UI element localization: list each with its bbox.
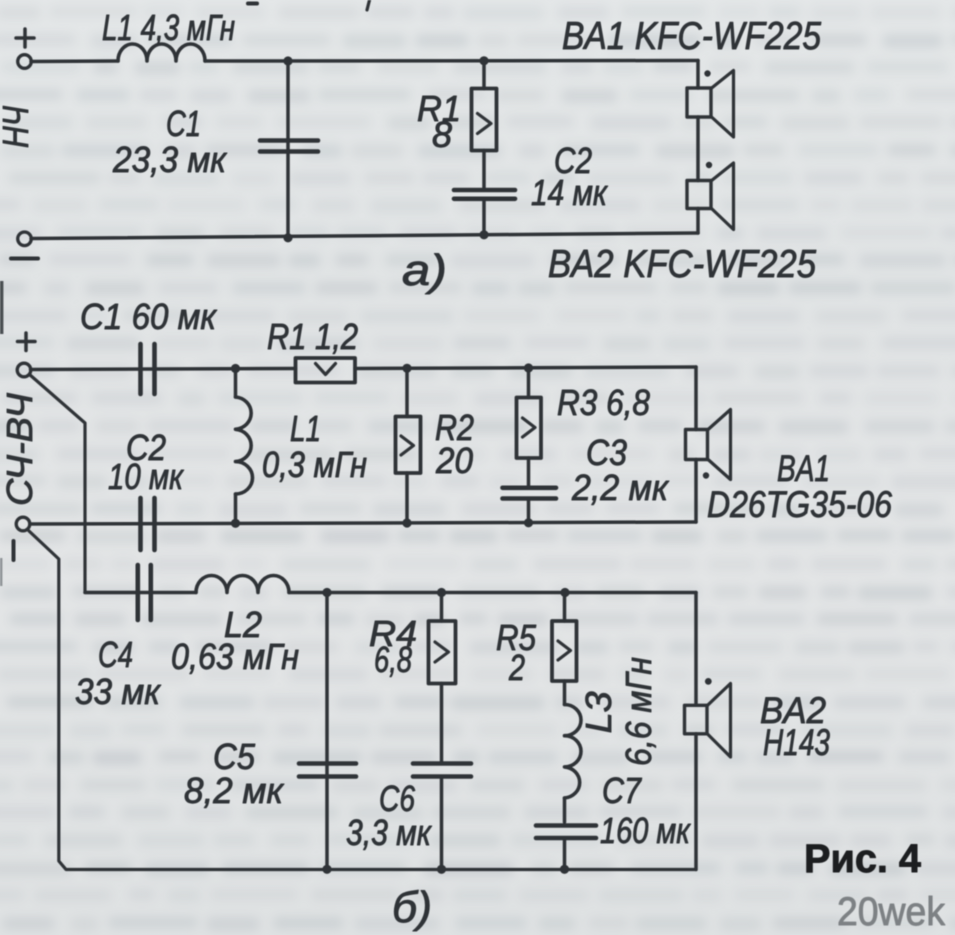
node junction top of C1 (circuit a) — [283, 56, 292, 65]
svg-text:D26TG35-06: D26TG35-06 — [707, 484, 892, 525]
svg-text:8: 8 — [432, 114, 452, 155]
scan artifact left edge strip 2 — [0, 558, 2, 586]
chevron inside R1 (circuit b) — [316, 364, 336, 375]
svg-text:C7: C7 — [602, 770, 643, 811]
terminal + (circuit b) plus sign — [24, 333, 28, 351]
speaker BA1 (circuit b) cone — [708, 410, 731, 480]
speaker BA1 polarity dot — [704, 70, 710, 76]
capacitor C7 bottom lead — [563, 838, 567, 870]
svg-text:R1 1,2: R1 1,2 — [267, 316, 358, 357]
speaker BA2 (circuit a) box — [687, 181, 711, 209]
svg-text:3,3 мк: 3,3 мк — [346, 812, 433, 853]
capacitor C6 plates — [413, 761, 471, 766]
speaker BA1 (circuit a) box — [687, 88, 711, 117]
speaker BA1 (circuit b) polarity dot — [703, 472, 709, 478]
resistor R1 (circuit a) body — [472, 89, 497, 151]
svg-text:8,2 мк: 8,2 мк — [184, 770, 285, 811]
wire between speakers BA1 BA2 — [696, 117, 700, 181]
svg-text:C1 60 мк: C1 60 мк — [80, 296, 218, 337]
capacitor C5 plates — [299, 761, 356, 766]
node junction bottom of C7 — [560, 865, 569, 874]
node junction top of R1 (circuit a) — [479, 56, 488, 65]
wire: lower section top rail — [85, 591, 196, 595]
speaker BA2 cone — [711, 163, 734, 230]
speaker BA2 (circuit b) cone — [707, 684, 731, 758]
node junction top of R3 — [524, 363, 533, 372]
node junction top of C5 — [322, 588, 331, 597]
svg-text:б): б) — [392, 883, 432, 932]
scan artifact left edge strip 1 — [0, 281, 3, 334]
node junction top of R4 — [437, 588, 446, 597]
scan artifact dash top edge — [248, 2, 257, 6]
resistor R2 body — [396, 417, 421, 474]
svg-text:14 мк: 14 мк — [531, 172, 609, 213]
node junction bottom of R2 — [402, 518, 411, 527]
resistor R4 to C6 wire — [440, 684, 444, 764]
node junction bottom of L1 (circuit b) — [231, 519, 240, 528]
svg-text:10 мк: 10 мк — [108, 456, 185, 497]
resistor R1 to capacitor C2 wire — [482, 151, 486, 189]
node junction top of R5 — [560, 588, 569, 597]
svg-text:R3 6,8: R3 6,8 — [557, 382, 650, 423]
node junction bottom of R1C2 (circuit a) — [479, 230, 488, 239]
wire: circuit a top rail — [31, 59, 118, 63]
capacitor C2 bottom lead — [482, 199, 486, 235]
speaker BA1 (circuit b) box — [686, 430, 708, 460]
resistor R4 top lead — [440, 593, 444, 622]
minus sign (circuit a) — [11, 257, 38, 261]
chevron inside R5 — [558, 641, 571, 660]
chevron inside R2 — [401, 436, 414, 455]
wire: right rail down to speaker BA1 (circuit a) — [696, 61, 700, 89]
minus sign (circuit b) — [12, 541, 16, 560]
svg-text:L1: L1 — [290, 408, 321, 449]
svg-text:СЧ-ВЧ: СЧ-ВЧ — [0, 392, 40, 506]
diagonal wire from - terminal to left rail — [29, 531, 696, 870]
node junction bottom of C1 (circuit a) — [283, 233, 292, 242]
node junction bottom of C6 — [437, 865, 446, 874]
node junction bottom of C5 — [322, 865, 331, 874]
capacitor C6 bottom lead — [440, 777, 444, 870]
resistor R5 body — [552, 621, 577, 681]
svg-text:2: 2 — [508, 647, 525, 688]
svg-text:0,3 мГн: 0,3 мГн — [262, 444, 367, 485]
svg-text:0,63 мГн: 0,63 мГн — [171, 636, 299, 677]
svg-text:6,6 мГн: 6,6 мГн — [618, 657, 659, 766]
svg-text:33 мк: 33 мк — [75, 671, 162, 712]
svg-text:6,8: 6,8 — [374, 639, 412, 680]
speaker BA2 (circuit b) box — [685, 705, 708, 734]
svg-text:20: 20 — [435, 440, 473, 481]
inductor L1 (circuit a) 4,3 mGn coil — [118, 44, 205, 61]
resistor R3 body — [517, 398, 542, 459]
speaker BA2 polarity dot — [706, 162, 712, 168]
resistor R3 top lead — [527, 368, 531, 398]
chevron inside R1 (circuit a) — [478, 114, 492, 134]
svg-text:C4: C4 — [98, 634, 133, 675]
svg-text:BA1: BA1 — [777, 448, 830, 489]
inductor L1 (circuit b) coil — [236, 397, 253, 494]
capacitor C1 plates — [260, 138, 318, 143]
speaker BA1 cone — [711, 71, 734, 138]
inductor L1 (circuit b) top lead — [234, 369, 238, 398]
chevron inside R4 — [435, 642, 449, 662]
terminal + (circuit a), plus sign — [23, 29, 27, 47]
svg-text:L3: L3 — [578, 691, 619, 733]
capacitor C1 (circuit a) branch wire — [286, 61, 290, 238]
resistor R5 top lead — [563, 593, 567, 622]
diagonal wire from + terminal down to C4 rail — [30, 375, 138, 593]
svg-text:C1: C1 — [166, 103, 201, 144]
svg-text:23,3 мк: 23,3 мк — [112, 139, 228, 180]
wire: circuit b top rail — [31, 369, 296, 370]
terminal circle - (circuit a) — [18, 232, 32, 246]
terminal circle + (circuit a) — [18, 55, 32, 69]
svg-text:Рис. 4: Рис. 4 — [804, 837, 922, 881]
resistor R1 (circuit a) top lead — [482, 61, 486, 89]
resistor R5 to L3 wire — [563, 681, 567, 705]
capacitor C5 branch wire — [325, 593, 329, 870]
capacitor C3 bottom lead — [527, 499, 531, 524]
capacitor C2 plates — [454, 188, 515, 193]
capacitor C7 plates — [536, 823, 596, 828]
svg-text:BA1 KFC-WF225: BA1 KFC-WF225 — [562, 15, 822, 58]
svg-text:L1 4,3 мГн: L1 4,3 мГн — [102, 7, 235, 48]
resistor R2 top lead — [405, 369, 409, 417]
resistor R1 (circuit b) body — [296, 358, 356, 383]
speaker BA2 (circuit b) bottom wire — [694, 734, 698, 870]
wire: circuit a bottom rail — [31, 233, 698, 239]
capacitor C1 (circuit b) plates — [138, 344, 143, 394]
inductor L2 coil — [196, 576, 289, 593]
svg-text:160 мк: 160 мк — [600, 810, 692, 851]
speaker BA1 (circuit b) bottom wire — [694, 460, 698, 523]
scan artifact apostrophe top edge — [367, 0, 370, 10]
svg-text:2,2 мк: 2,2 мк — [571, 467, 670, 508]
chevron inside R3 — [523, 418, 536, 437]
svg-text:20wek: 20wek — [837, 890, 946, 934]
inductor L3 to C7 wire — [563, 798, 567, 822]
svg-text:H143: H143 — [763, 722, 830, 763]
resistor R3 to C3 wire — [527, 458, 531, 486]
wire speaker BA2 to bottom rail (circuit a) — [696, 209, 700, 234]
wire: right rail to speaker BA2 (circuit b) — [694, 593, 698, 706]
speaker BA2 (circuit b) polarity dot — [705, 678, 712, 685]
capacitor C3 plates — [503, 485, 557, 490]
svg-text:а): а) — [402, 246, 447, 295]
inductor L3 coil — [565, 705, 582, 799]
resistor R2 bottom lead — [405, 473, 409, 524]
terminal circle - (circuit b) — [16, 517, 30, 531]
node junction top of L1 (circuit b) — [231, 364, 240, 373]
svg-text:НЧ: НЧ — [0, 105, 36, 148]
node junction top of R2 — [402, 364, 411, 373]
wire: right rail to speaker BA1 (circuit b) — [694, 367, 698, 430]
node junction bottom of C3 — [524, 518, 533, 527]
capacitor C4 plates — [136, 565, 141, 620]
wire: circuit b bottom rail — [30, 522, 696, 524]
svg-text:BA2 KFC-WF225: BA2 KFC-WF225 — [548, 243, 817, 286]
resistor R4 body — [429, 621, 456, 684]
inductor L1 bottom lead — [234, 494, 238, 524]
terminal circle + (circuit b) — [17, 363, 31, 377]
capacitor C2 (circuit b) plates — [138, 498, 143, 550]
